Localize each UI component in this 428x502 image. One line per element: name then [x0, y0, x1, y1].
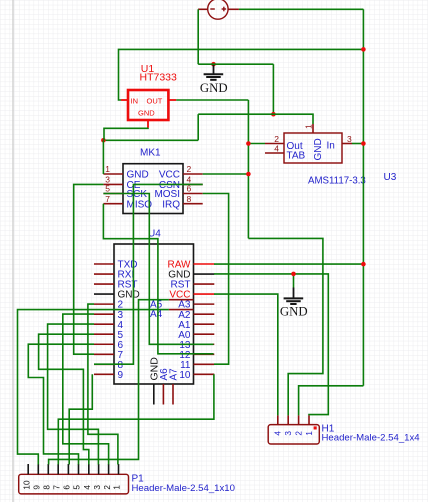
pin number MK1.8: [187, 194, 192, 204]
svg-text:OUT: OUT: [147, 96, 163, 105]
svg-text:A4: A4: [150, 309, 163, 320]
regulator U1 box (HT7333): [121, 90, 176, 128]
pin name MK1 MISO: [127, 199, 153, 210]
pin U4 left 8 stub: [94, 363, 114, 365]
value HT7333: [140, 72, 178, 84]
wire SCK: MK1.5 to U4.D13: [103, 194, 213, 345]
pin U4 right 12 stub: [194, 353, 215, 355]
pin U4 right RST stub: [194, 283, 215, 285]
wire 3V3: vertical x=248: [247, 100, 249, 238]
junction 3V3 at (248,143): [246, 141, 251, 146]
pin name U4 right 10: [179, 370, 191, 381]
pin name U4 bottom GND: [148, 357, 160, 381]
pin name U4 A4: [150, 309, 163, 320]
pin name U4 right A0: [178, 330, 191, 341]
pin name U4 right A2: [178, 310, 191, 321]
pin U4 left RXI stub: [94, 273, 114, 275]
pin U4 left GND stub: [94, 293, 114, 295]
pin name U4 GND: [118, 290, 140, 301]
pin U4 inner A5 stub: [169, 299, 194, 301]
svg-text:3: 3: [347, 134, 352, 144]
svg-text:9: 9: [118, 370, 124, 381]
pin U4 left 5 stub: [94, 333, 114, 335]
pin number MK1.4: [187, 175, 192, 185]
wire 3V3: to H1 pin 3: [248, 238, 323, 415]
pin number MK1.2: [187, 164, 192, 174]
pin name U4 right RAW: [168, 260, 192, 271]
svg-text:7: 7: [105, 194, 110, 204]
svg-text:2: 2: [274, 134, 279, 144]
pin number P1.7: [52, 485, 61, 490]
pin name U4 right VCC: [169, 290, 190, 301]
label MK1: [140, 148, 161, 159]
wire A4: to P1 pin 9: [18, 310, 169, 465]
pin U4 left 6 stub: [94, 343, 114, 345]
wire GND: U4 right GND to GND2/H1 pin1: [214, 274, 328, 416]
label U1: [141, 63, 155, 75]
pin U4 left 7 stub: [94, 353, 114, 355]
regulator U3 box (AMS1117-3.3): [265, 124, 352, 163]
wire VIN: branch to U4 RAW: [214, 263, 363, 265]
junction GND at (293,274): [291, 272, 296, 277]
wire VIN: branch to U1 IN: [119, 49, 364, 100]
connector P1 box with pins: [19, 464, 129, 494]
wire A5: to P1 pin 8: [49, 300, 169, 465]
svg-text:4: 4: [274, 431, 283, 436]
ground symbol GND2 (right): [280, 274, 308, 319]
svg-text:Header-Male-2.54_1x4: Header-Male-2.54_1x4: [322, 433, 421, 444]
svg-text:4: 4: [274, 143, 279, 153]
value Header-Male-2.54_1x4: [322, 433, 421, 444]
svg-text:2: 2: [294, 431, 303, 436]
pin number MK1.3: [105, 175, 110, 185]
pin name U4 2: [118, 300, 124, 311]
pin number U3.1: [304, 124, 314, 129]
pin name U4 RST: [118, 280, 138, 291]
svg-text:AMS1117-3.3: AMS1117-3.3: [308, 175, 366, 186]
svg-text:4: 4: [83, 485, 92, 490]
pin name U4 A5: [150, 299, 163, 310]
pin number U3.3: [347, 134, 352, 144]
svg-text:A7: A7: [169, 368, 180, 381]
pin name MK1 CE: [127, 180, 141, 191]
wire D4: U4.4 to P1 pin 3: [48, 324, 99, 464]
svg-text:GND: GND: [313, 138, 324, 160]
wire GND: battery - down: [197, 9, 199, 64]
pin name U4 right 11: [180, 360, 191, 371]
pin name U4 RXI: [118, 270, 135, 281]
pin name MK1 VCC: [159, 170, 180, 181]
pin U4 right A1 stub: [194, 323, 215, 325]
svg-text:MK1: MK1: [140, 148, 161, 159]
pin name MK1 CSN: [159, 180, 180, 191]
pin name U4 bottom A6: [159, 368, 170, 381]
pin number U3.2: [274, 134, 279, 144]
pin name U4 right A3: [178, 300, 191, 311]
pin name U4 TXD: [118, 260, 138, 271]
junction VIN at (363,264): [361, 262, 366, 267]
pin U4 right A0 stub: [194, 333, 215, 335]
wire VIN: battery + to right rail: [239, 8, 364, 10]
wire D9: U4.9 to P1 pin 6: [69, 374, 92, 464]
pin U4 right VCC stub: [194, 293, 215, 295]
svg-text:3: 3: [93, 485, 102, 490]
svg-text:In: In: [327, 140, 335, 151]
wire CE: MK1.3 to U4.D7: [74, 184, 104, 354]
label U3: [384, 172, 397, 183]
pin name U4 4: [118, 320, 124, 331]
pin number P1.10: [22, 480, 31, 490]
wire 3V3: U1 OUT to vertical x=248: [176, 99, 248, 101]
pin name U4 9: [118, 370, 124, 381]
svg-text:Header-Male-2.54_1x10: Header-Male-2.54_1x10: [132, 483, 235, 494]
wire MISO: MK1.7 to U4.D12: [103, 204, 213, 354]
pin name U4 right 12: [179, 350, 191, 361]
pin number H1.2: [294, 431, 303, 436]
wire 3V3: branch to MK1 VCC: [203, 173, 249, 175]
ground symbol GND1 (top): [200, 62, 228, 95]
junction VIN at (363,143): [361, 141, 366, 146]
svg-text:VCC: VCC: [159, 170, 180, 181]
pin number H1.4: [274, 431, 283, 436]
pin name U4 right RST: [171, 280, 191, 291]
wire GND: horizontal y=140: [103, 139, 198, 141]
value Header-Male-2.54_1x10: [132, 483, 235, 494]
pin U4 left TXD stub: [94, 263, 114, 265]
wire D3: U4.3 to P1 pin 2: [63, 314, 109, 464]
svg-text:1: 1: [105, 164, 110, 174]
wire 3V3: branch to U3 Out: [248, 143, 265, 145]
wire MOSI: MK1.6 to U4.D11: [203, 194, 229, 365]
pin number P1.5: [73, 485, 82, 490]
label P1: [132, 473, 145, 484]
battery symbol (supply +/-): [198, 0, 239, 19]
svg-text:2: 2: [187, 164, 192, 174]
svg-text:U3: U3: [384, 172, 397, 183]
frame border line: [12, 0, 14, 502]
wire VIN: right rail vertical x=363: [362, 9, 364, 386]
pin U4 right A3 stub: [194, 303, 215, 305]
pin U4 left 2 stub: [94, 303, 114, 305]
pin U4 right 13 stub: [194, 343, 215, 345]
junction GND at (273,114): [271, 112, 276, 117]
wire GND: vertical x=198 lower: [197, 114, 199, 140]
pin U4 left RST stub: [94, 283, 114, 285]
wire GND: horizontal y=64: [198, 63, 273, 65]
svg-text:8: 8: [187, 194, 192, 204]
svg-text:2: 2: [103, 485, 112, 490]
wire GND: from U1 GND: [104, 128, 148, 140]
pin name U4 5: [118, 330, 124, 341]
svg-text:GND: GND: [280, 305, 308, 319]
pin number P1.4: [83, 485, 92, 490]
pin U4 right 11 stub: [194, 363, 215, 365]
svg-text:HT7333: HT7333: [140, 72, 178, 84]
svg-text:1: 1: [305, 431, 314, 436]
module U4 box (Pro Mini): [114, 244, 194, 384]
label U4: [148, 229, 161, 240]
svg-text:5: 5: [73, 485, 82, 490]
pin number P1.8: [43, 485, 52, 490]
pin name U4 6: [118, 340, 124, 351]
svg-text:10: 10: [179, 370, 191, 381]
connector H1 box with pins: [268, 415, 319, 444]
svg-text:7: 7: [52, 485, 61, 490]
pin name MK1 MOSI: [154, 189, 180, 200]
pin U4 bottom A6 stub: [162, 384, 164, 405]
module MK1 box with pins: [103, 164, 202, 214]
wire VIN: to H1 pin 2: [299, 386, 364, 416]
svg-text:TAB: TAB: [287, 150, 306, 161]
pin number MK1.7: [105, 194, 110, 204]
pin U4 bottom A7 stub: [172, 384, 174, 405]
svg-text:5: 5: [105, 184, 110, 194]
wire D5: U4.5 to P1 pin 4: [39, 334, 94, 464]
wire GND: vertical x=273: [272, 64, 274, 114]
pin name MK1 GND: [127, 170, 149, 181]
junction VIN at (363,49): [361, 47, 366, 52]
pin name MK1 IRQ: [162, 199, 180, 210]
wire D2: U4.2 to P1 pin 1: [88, 304, 118, 464]
pin name U4 bottom A7: [169, 368, 180, 381]
svg-text:IN: IN: [131, 96, 139, 105]
svg-text:GND: GND: [138, 109, 155, 118]
pin number P1.3: [93, 485, 102, 490]
pin number MK1.6: [187, 184, 192, 194]
svg-text:6: 6: [63, 485, 72, 490]
svg-text:GND: GND: [127, 170, 149, 181]
pin number P1.9: [33, 485, 42, 490]
svg-text:GND: GND: [200, 81, 228, 95]
pin number H1.3: [284, 431, 293, 436]
wire CSN: MK1.4 to U4.D8: [94, 184, 203, 364]
wire D6: U4.6 to P1 pin 5: [28, 344, 94, 464]
svg-text:1: 1: [113, 485, 122, 490]
pin number H1.1: [305, 431, 314, 436]
pin name U4 right GND: [168, 270, 190, 281]
wire D10: U4.10 to P1 pin 7: [58, 374, 214, 464]
pin number P1.6: [63, 485, 72, 490]
pin U4 right A2 stub: [194, 313, 215, 315]
pin name U4 right 13: [179, 340, 191, 351]
pin number MK1.1: [105, 164, 110, 174]
junction GND at (103,140): [101, 138, 106, 143]
pin name MK1 SCK: [127, 189, 148, 200]
wire VIN: branch to U3 In: [352, 143, 363, 145]
wire VCC: U4 VCC to H1 pin 4: [214, 294, 278, 415]
pin U4 inner A4 stub: [169, 309, 194, 311]
svg-text:1: 1: [304, 124, 314, 129]
wire GND: horizontal y=114 to U3 pin1: [198, 114, 313, 124]
label H1: [322, 424, 335, 435]
pin name U4 right A1: [178, 320, 191, 331]
pin U4 left 3 stub: [94, 313, 114, 315]
pin U4 right GND stub: [194, 273, 215, 275]
label AMS1117-3.3: [308, 175, 366, 186]
svg-text:8: 8: [43, 485, 52, 490]
pin number MK1.5: [105, 184, 110, 194]
pin U4 bottom GND stub: [153, 384, 155, 405]
svg-text:3: 3: [284, 431, 293, 436]
pin number P1.1: [113, 485, 122, 490]
svg-text:9: 9: [33, 485, 42, 490]
pin number P1.2: [103, 485, 112, 490]
pin U4 right 10 stub: [194, 373, 215, 375]
pin U4 right RAW stub: [194, 263, 215, 265]
wire GND: to MK1 GND pin: [102, 140, 104, 174]
pin number U3.4: [274, 143, 279, 153]
svg-text:MISO: MISO: [127, 199, 153, 210]
svg-text:IRQ: IRQ: [162, 199, 180, 210]
junction 3V3 at (248,174): [246, 172, 251, 177]
pin name U4 8: [118, 360, 124, 371]
svg-text:10: 10: [22, 480, 31, 490]
pin U4 left 4 stub: [94, 323, 114, 325]
pin name U4 3: [118, 310, 124, 321]
pin name U4 7: [118, 350, 124, 361]
pin U4 left 9 stub: [94, 373, 114, 375]
